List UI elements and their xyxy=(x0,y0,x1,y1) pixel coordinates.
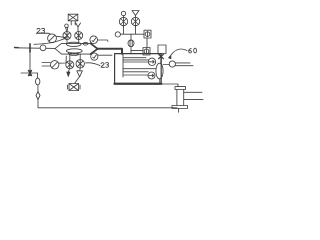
feed lines to pump P2 xyxy=(42,63,50,67)
main discharge pipe (thick) xyxy=(98,49,122,54)
pipe down to bottom line xyxy=(37,85,39,92)
flow meter F1 (circle with bars) xyxy=(128,40,134,47)
sight glass (open circle on pipe) xyxy=(40,45,46,51)
valve H (top, funnel actuator) xyxy=(131,11,139,28)
feed lines pair 2 xyxy=(123,72,148,75)
inner chamber xyxy=(123,54,146,77)
gauge G1 (upper right of bowl) xyxy=(90,36,108,44)
valve V2 (box with X, bottom) xyxy=(68,77,81,91)
gauge G2 (lower right of bowl) xyxy=(91,53,112,60)
column outlet stem xyxy=(178,109,180,113)
feed lines pair 1 xyxy=(124,60,149,62)
pump P2 (circle with diagonal) xyxy=(51,61,59,69)
pump c2 (circle with arrow) xyxy=(148,72,155,79)
valve C (below bowl, circle) xyxy=(66,61,74,69)
pipe from flow meter down xyxy=(130,47,132,54)
main feed pipe (left) xyxy=(15,47,56,50)
pipe curve from gauge to valve A xyxy=(34,38,66,44)
valve A (circle with stem) xyxy=(63,32,71,40)
valve (dark bowtie at junction 2) xyxy=(29,71,32,76)
open circle end xyxy=(115,32,120,37)
label 23 (lower right of bowl) xyxy=(86,63,109,68)
unit housing (thick box) xyxy=(115,54,162,85)
drain funnel (open triangle) xyxy=(77,68,83,77)
valve D (below bowl, circle) xyxy=(76,60,84,68)
branch to instrument box xyxy=(131,49,143,51)
diamond fitting O2 xyxy=(36,92,40,100)
column body xyxy=(177,90,184,106)
instrument box B1a (circle inside, on header) xyxy=(144,30,151,38)
header pipe (horizontal) xyxy=(120,33,144,35)
valve V1 (box with X, top center) xyxy=(68,14,78,21)
motor box B2 xyxy=(158,45,166,54)
pump P60 (circle, right) xyxy=(169,61,193,67)
drain arrow (filled) xyxy=(67,69,70,77)
valve G (top, circle actuator) xyxy=(119,11,127,27)
valve B (circle with stem) xyxy=(75,32,83,40)
stem from valve G xyxy=(123,27,125,34)
label 23 (top left) xyxy=(36,28,50,34)
instrument box B1b (circle inside) xyxy=(143,48,150,56)
column bottom flange xyxy=(172,106,188,109)
pipe from valve V1 down xyxy=(71,21,75,25)
column side pipe 2 xyxy=(184,98,203,100)
pipe from drum down to column xyxy=(160,79,178,87)
roller drum (vertical ellipse) xyxy=(156,63,163,79)
stem from box B1a down xyxy=(146,38,148,48)
stems from bowl to lower valves xyxy=(70,54,80,61)
separator bowl (hexagon) xyxy=(55,40,98,56)
column top flange xyxy=(175,87,186,90)
pipe down from junction xyxy=(29,48,31,73)
pipe down from header xyxy=(130,34,132,40)
column side pipe 1 xyxy=(184,91,202,93)
pipe corner down xyxy=(37,73,39,78)
pipe from pump P2 up to bowl xyxy=(59,56,66,63)
vent symbol left (small circle on stem) xyxy=(65,24,69,31)
gauge P23 (circle with diagonal) xyxy=(48,34,57,43)
pipe down and bottom run xyxy=(38,100,177,108)
coupling stem and x-junction xyxy=(159,54,164,64)
branch pipe at junction 2 xyxy=(21,72,38,74)
pipe drum to pump P60 xyxy=(163,64,169,66)
pump c1 (circle with arrow) xyxy=(148,58,155,65)
stem from valve H xyxy=(135,26,137,34)
funnel symbol right (Y shape) xyxy=(76,23,81,31)
junction tee xyxy=(29,44,31,52)
oval fitting O1 xyxy=(36,78,40,85)
label 60 with leader xyxy=(169,48,197,58)
